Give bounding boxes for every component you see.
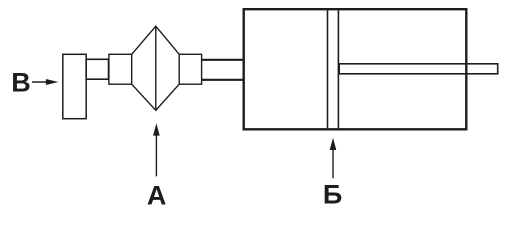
svg-text:Б: Б [323,180,342,210]
drive shaft to cylinder (bottom edge) [202,79,245,81]
svg-text:А: А [147,180,167,210]
piston rod [339,64,498,74]
arrow B (points right at input block) [32,79,58,85]
right cone hub (right square) [179,54,201,84]
belt (vertical center line of variator) [155,26,157,110]
piston (right face line) [337,10,339,128]
piston (left face line) [327,10,329,128]
variator cones (diamond outline) [132,26,180,110]
arrow A (points up at variator) [153,123,160,176]
arrow Б (points up at piston) [330,138,337,179]
coupling sleeve (small connector rectangle) [86,59,108,79]
input block (tall rectangle) [63,54,86,118]
cylinder body [244,9,467,129]
svg-text:В: В [11,67,31,97]
left cone hub (left square) [109,54,132,84]
drive shaft to cylinder (top edge) [202,59,245,61]
